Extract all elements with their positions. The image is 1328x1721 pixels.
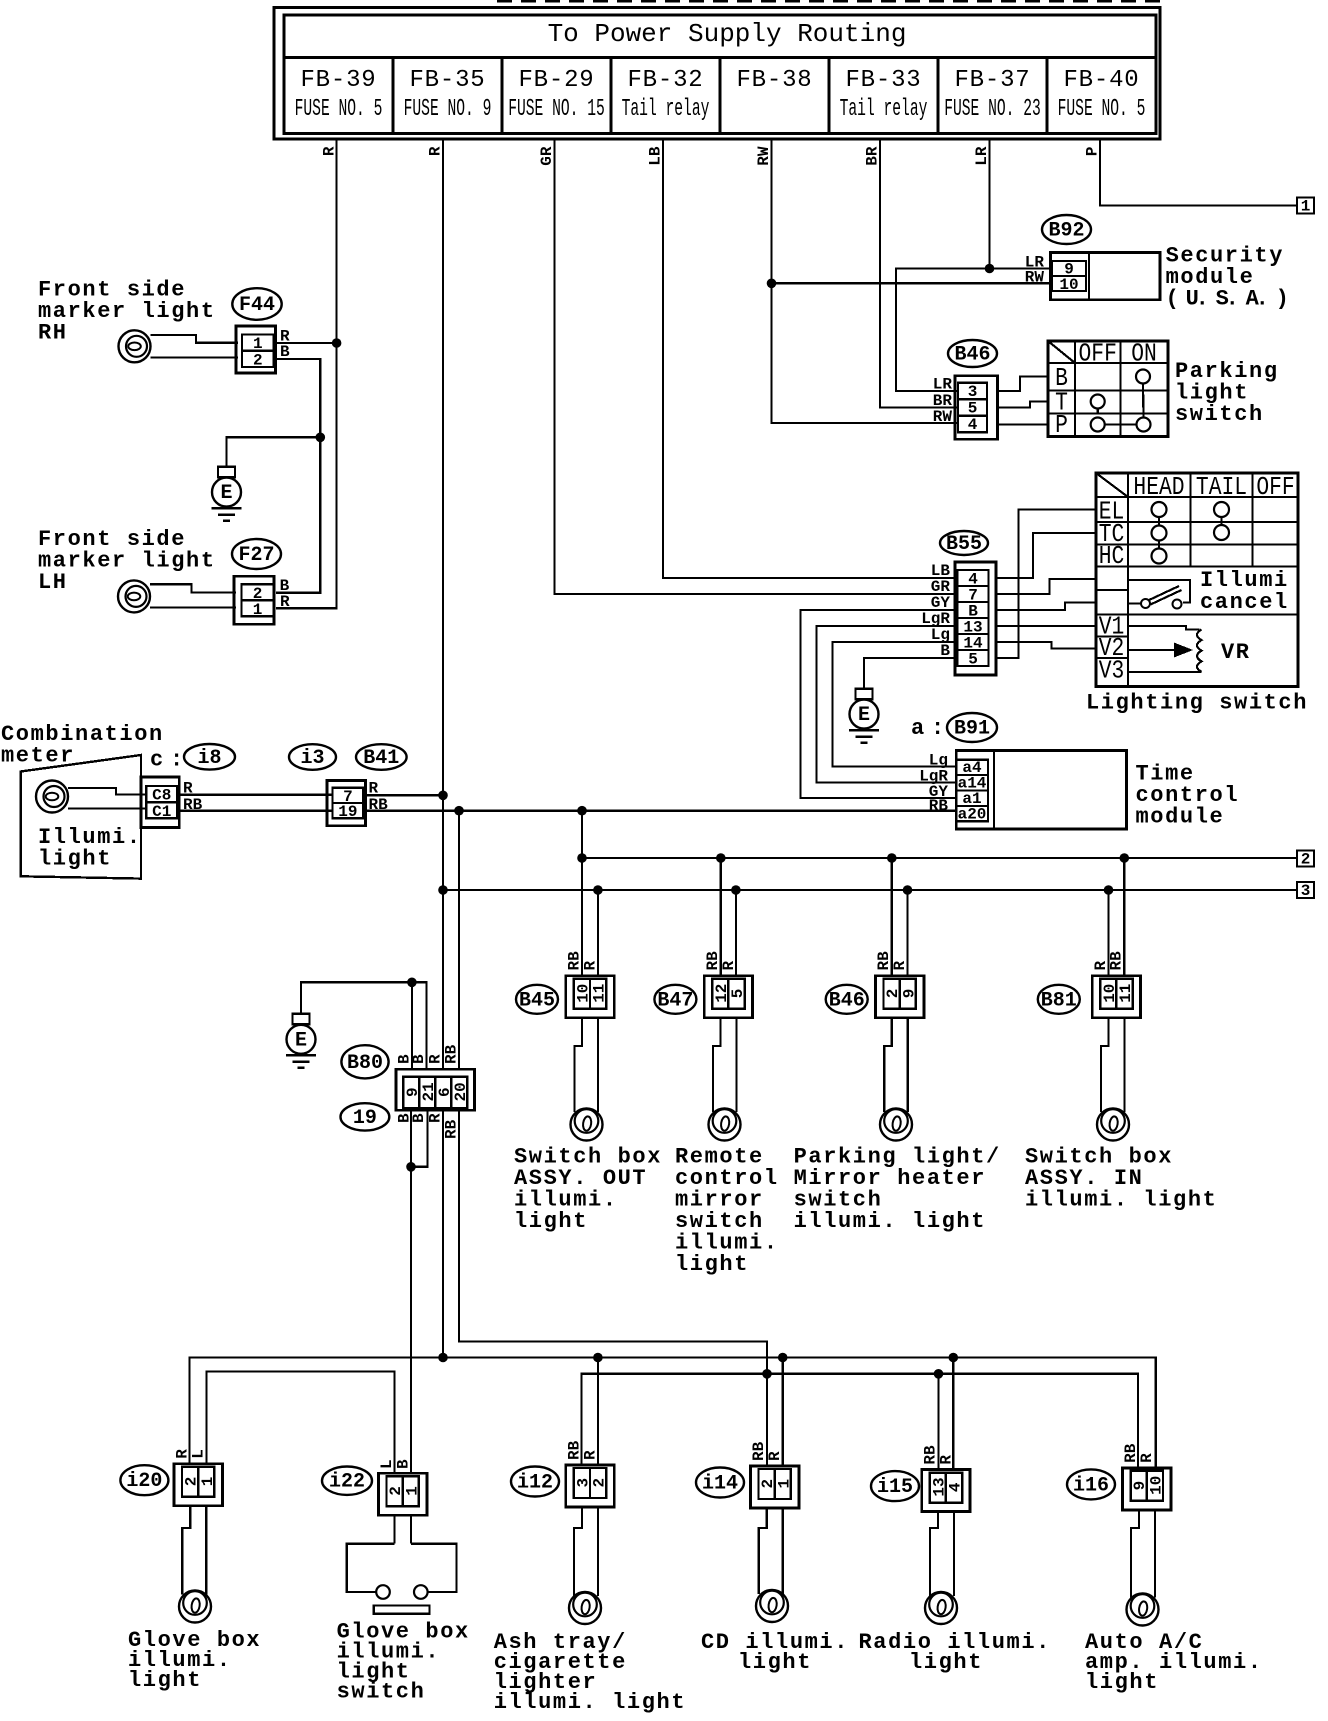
svg-text:GR: GR [538, 146, 556, 166]
svg-text:B92: B92 [1048, 220, 1084, 243]
connector i12 pins 3 2 [566, 1465, 614, 1507]
bulb i12 [569, 1592, 601, 1624]
junction bus R at net R [438, 885, 448, 895]
svg-text:B55: B55 [946, 533, 982, 556]
wire bus R to i15 pin 4 [952, 1358, 954, 1470]
svg-text:TAIL: TAIL [1196, 473, 1247, 503]
connector B45 pins 10 11 [566, 976, 614, 1018]
wire R connector c to B41 [179, 794, 332, 796]
svg-text:illumi. light: illumi. light [794, 1209, 986, 1234]
svg-text:LR: LR [973, 146, 991, 166]
junction RB at rail [762, 1369, 772, 1379]
svg-text:5: 5 [968, 651, 978, 669]
svg-text:FB-38: FB-38 [736, 67, 812, 94]
svg-text:i3: i3 [300, 747, 324, 770]
svg-text:F44: F44 [239, 294, 275, 317]
junction RB [454, 806, 464, 816]
svg-text:To Power Supply Routing: To Power Supply Routing [548, 19, 907, 49]
wire B45 pin 10 to bulb [575, 1018, 583, 1112]
contact TAIL-TC [1214, 525, 1229, 540]
svg-text:B81: B81 [1041, 989, 1077, 1012]
wire RB B41 to time control a20 [365, 810, 957, 812]
connector B41 pins 7 19 [327, 781, 365, 826]
switch link B-ON to P-ON [1142, 384, 1145, 418]
connector F44 designator [232, 288, 281, 320]
svg-text:B91: B91 [954, 718, 990, 741]
svg-text:R: R [937, 1455, 955, 1465]
svg-text:a20: a20 [958, 806, 987, 824]
wire ground E3 to B80 pins 9 21 [301, 982, 427, 1069]
svg-text:B47: B47 [657, 989, 693, 1012]
svg-text:20: 20 [452, 1082, 470, 1101]
svg-text:10: 10 [1147, 1476, 1165, 1495]
svg-text:FB-32: FB-32 [627, 67, 703, 94]
svg-text:2: 2 [591, 1478, 609, 1488]
svg-text:FUSE NO. 9: FUSE NO. 9 [404, 94, 492, 122]
glove box light switch [347, 1544, 395, 1592]
wire i22 pin 1 to switch [410, 1515, 412, 1544]
bulb i15 [925, 1592, 957, 1624]
contact HEAD-TC [1152, 526, 1167, 541]
contact TAIL-EL [1214, 502, 1229, 517]
connector i15 pins 13 4 [922, 1470, 970, 1512]
connector B46 designator [826, 985, 868, 1014]
connector B45 designator [516, 985, 558, 1014]
svg-text:E: E [858, 704, 870, 727]
wire rail RB to i15 pin 13 [937, 1374, 939, 1470]
connector B41 designator [356, 744, 407, 770]
wire B55 pin 4 to lighting switch TC row [996, 533, 1096, 578]
wire RB connector c to B41 [179, 810, 332, 812]
svg-text:3: 3 [1301, 882, 1311, 900]
contact HEAD-EL [1152, 502, 1167, 517]
svg-text:ON: ON [1131, 340, 1157, 370]
svg-text:P: P [1084, 147, 1102, 157]
svg-text:R: R [720, 961, 738, 971]
svg-text:B45: B45 [519, 989, 555, 1012]
connector B91 pins a4 a14 a1 a20 [956, 760, 988, 822]
wire net GR from FB-29 to B55 pin 7 [555, 139, 958, 594]
wire rail RB i12 to i16 [582, 1374, 1139, 1468]
svg-text:Tail relay: Tail relay [840, 94, 928, 122]
svg-text:FUSE NO. 5: FUSE NO. 5 [295, 94, 383, 122]
security module box [1050, 252, 1160, 299]
svg-text:R: R [581, 1450, 599, 1460]
svg-text:switch: switch [337, 1679, 426, 1704]
wire bus R to B47 pin 5 [735, 890, 737, 976]
wire cropped top edge artifact [497, 0, 1160, 2]
connector B92 pins 9 10 [1052, 261, 1086, 291]
svg-text:R: R [766, 1451, 784, 1461]
wire bulb RH to F44 pin 2 [151, 356, 239, 358]
connector B46 pins 2 9 [876, 976, 924, 1018]
ground E2 [856, 689, 873, 700]
svg-text:B: B [410, 1054, 428, 1064]
switch contact P-ON [1137, 418, 1151, 432]
wire bus R to i14 pin 1 [782, 1358, 784, 1467]
svg-text:RB: RB [443, 1119, 461, 1139]
wire B55 pin 7 to illumi cancel top [996, 579, 1096, 594]
wire LR to B92 pin 9 [990, 267, 1053, 269]
svg-text:VR: VR [1221, 640, 1251, 665]
svg-text:HC: HC [1099, 542, 1125, 572]
connector B81 pins 10 11 [1092, 976, 1140, 1018]
connector B55 designator [940, 531, 988, 555]
wire i15 pin 4 to bulb [953, 1512, 955, 1596]
svg-text:RB: RB [443, 1044, 461, 1064]
wire bus R to B46 pin 9 [906, 890, 908, 976]
wire LgR B55 pin 13 to time control a14 [817, 626, 958, 783]
svg-text:light: light [128, 1668, 202, 1693]
combination meter body [21, 755, 141, 879]
off-page connector 1 [1297, 198, 1314, 214]
wire net RW from FB-38 to parking switch pin 4 [772, 139, 958, 423]
svg-text:i14: i14 [702, 1473, 738, 1496]
svg-text:i12: i12 [517, 1472, 553, 1495]
connector i14 pins 2 1 [751, 1466, 799, 1508]
svg-text:5: 5 [729, 989, 747, 999]
wire B45 pin 11 to bulb [597, 1018, 599, 1112]
wire i14 pin 2 to bulb [759, 1508, 767, 1594]
svg-text:2: 2 [253, 351, 263, 369]
time control module box [956, 751, 1126, 829]
bulb B45 illumination [571, 1109, 603, 1141]
wire LR branch to parking light switch pin 3 [896, 269, 990, 392]
bulb B47 illumination [709, 1109, 741, 1141]
wire B55 pin 5 to lighting switch EL row [996, 510, 1096, 659]
svg-text:light: light [675, 1252, 749, 1277]
connector i16 pins 9 10 [1123, 1468, 1171, 1510]
svg-text:R: R [427, 146, 445, 156]
bulb front marker LH [118, 580, 150, 612]
connector i9 designator [341, 1103, 390, 1130]
wire bulb LH to F27 pin 1 [150, 606, 236, 608]
wire i20 pin 1 to bulb [205, 1506, 207, 1595]
svg-text:LH: LH [38, 570, 68, 595]
resistor VR [1197, 630, 1202, 672]
svg-text:( U. S. A. ): ( U. S. A. ) [1166, 286, 1286, 311]
wire B46 pin 4 to switch row P [997, 423, 1048, 425]
switch link P-OFF to P-ON [1105, 423, 1137, 425]
wire R B41 to net R [365, 794, 443, 796]
junction LR [985, 264, 995, 274]
connector i20 designator [120, 1465, 168, 1495]
svg-text:R: R [280, 593, 290, 611]
svg-text:i20: i20 [126, 1470, 162, 1493]
wire B55 pin 14 to V2 [996, 642, 1096, 649]
switch contact P-OFF [1091, 418, 1105, 432]
svg-text:BR: BR [864, 146, 882, 166]
wire i16 pin 10 to bulb [1154, 1510, 1156, 1598]
wire net LR from FB-37 [988, 139, 990, 269]
junction net R / F44 [332, 338, 342, 348]
wire net LB from FB-32 to B55 pin 4 [663, 139, 957, 578]
wire B55 pin B to illumi cancel bottom [996, 603, 1096, 611]
svg-text:L: L [190, 1449, 208, 1459]
lighting switch grid [1096, 473, 1298, 687]
svg-text:3: 3 [968, 383, 978, 401]
svg-text:10: 10 [1059, 276, 1078, 294]
svg-text:FB-29: FB-29 [518, 67, 594, 94]
wire i22 pin 2 to switch [393, 1515, 395, 1544]
svg-text:1: 1 [1301, 198, 1311, 216]
connector B91 designator [947, 713, 997, 742]
connector c pins C8 C1 [141, 777, 179, 828]
wire i14 pin 1 to bulb [782, 1508, 784, 1594]
svg-text:RB: RB [929, 797, 949, 815]
connector i20 pins 2 1 [174, 1464, 222, 1506]
svg-text:HEAD: HEAD [1133, 473, 1184, 503]
svg-text:light: light [514, 1209, 588, 1234]
svg-text:L: L [378, 1459, 396, 1469]
wire RB junction down to B45 pin 10 [581, 811, 583, 976]
connector B80 designator [341, 1045, 388, 1078]
svg-text:B: B [394, 1459, 412, 1469]
svg-text:B: B [410, 1113, 428, 1123]
connector F44 pins 1 2 [236, 326, 276, 373]
off-page connector 2 [1297, 851, 1314, 867]
power supply routing box [274, 8, 1160, 140]
illumi cancel switch [1128, 602, 1141, 604]
svg-text:cancel: cancel [1200, 590, 1289, 615]
svg-text:R: R [581, 961, 599, 971]
wire B46 pin 2 to bulb [884, 1018, 892, 1112]
connector B55 pins 4 7 B 13 14 5 [955, 562, 996, 675]
wire meter bulb to connector C1 [68, 807, 146, 809]
junction ground net [407, 978, 417, 988]
wire B46 pin 5 to switch row T [997, 402, 1048, 408]
connector B80 pins 9 21 6 20 [396, 1069, 475, 1110]
svg-text:module: module [1136, 805, 1225, 830]
svg-text:C1: C1 [152, 803, 171, 821]
svg-text:FB-39: FB-39 [300, 67, 376, 94]
wire F44 pin 2 down to F27 pin 2 (B) [276, 359, 321, 593]
connector i22 pins 2 1 [379, 1473, 427, 1515]
svg-text:RW: RW [1025, 269, 1045, 287]
svg-text:11: 11 [591, 984, 609, 1003]
connector B47 pins 12 5 [704, 976, 752, 1018]
wire B47 pin 5 to bulb [735, 1018, 737, 1112]
wire B80 pin 9 stub [411, 982, 413, 1069]
svg-text:1: 1 [199, 1477, 217, 1487]
ground E1 [218, 467, 235, 478]
wire bulb RH to F44 pin 1 [151, 335, 239, 343]
wire i20 pin 2 to bulb [182, 1506, 190, 1595]
wire bulb LH to F27 pin 2 [150, 584, 236, 592]
svg-text:F27: F27 [238, 544, 274, 567]
svg-text:light: light [1085, 1670, 1159, 1695]
svg-text:1: 1 [253, 335, 263, 353]
wire V3 to resistor VR [1128, 671, 1202, 673]
wire Lg B55 pin 14 to time control a4 [833, 642, 958, 767]
wire rail L i20 pin 1 to i22 pin 2 [207, 1372, 395, 1474]
connector B47 designator [654, 985, 696, 1014]
svg-text:OFF: OFF [1079, 340, 1117, 370]
svg-text:B46: B46 [954, 344, 990, 367]
bulb combination meter illumi light [36, 781, 68, 813]
svg-text:i22: i22 [329, 1471, 365, 1494]
svg-text:i8: i8 [197, 747, 221, 770]
contact stems [1158, 517, 1160, 526]
svg-text:illumi. light: illumi. light [1025, 1187, 1217, 1212]
wire bus R to B45 pin 11 [597, 890, 599, 976]
svg-text:5: 5 [968, 400, 978, 418]
wire B81 pin 11 to bulb [1123, 1018, 1125, 1112]
wire B80 pins 9 21 merge to net B [411, 1110, 428, 1167]
wire i16 pin 9 to bulb [1131, 1510, 1139, 1598]
wire RW branch to B92 pin 10 [772, 282, 1053, 284]
wire bus RB to B47 pin 12 [720, 858, 722, 976]
svg-text:FUSE NO. 23: FUSE NO. 23 [944, 94, 1041, 122]
svg-text:a :: a : [911, 716, 941, 741]
wire bus R lower i20 to i16 [190, 1358, 1156, 1468]
svg-text:R: R [891, 961, 909, 971]
junction net B [406, 1162, 416, 1172]
contact HEAD-HC [1152, 549, 1167, 564]
connector i16 designator [1067, 1469, 1115, 1499]
svg-text:FB-35: FB-35 [409, 67, 485, 94]
svg-text:1: 1 [775, 1479, 793, 1489]
svg-text:R: R [1138, 1453, 1156, 1463]
svg-text:B41: B41 [363, 747, 399, 770]
bulb i16 [1127, 1594, 1159, 1626]
connector i14 designator [696, 1468, 744, 1498]
svg-text:light: light [738, 1650, 812, 1675]
switch contact B-ON [1136, 370, 1150, 384]
wire V1 to resistor VR [1128, 626, 1200, 630]
svg-text:light: light [38, 846, 112, 871]
bulb B81 illumination [1097, 1109, 1129, 1141]
svg-text:LR: LR [933, 376, 953, 394]
junction RW [767, 279, 777, 289]
svg-text:4: 4 [968, 416, 978, 434]
svg-text:illumi. light: illumi. light [494, 1690, 686, 1715]
bulb front marker RH [119, 330, 151, 362]
connector i22 designator [322, 1467, 372, 1495]
svg-text:Tail relay: Tail relay [622, 94, 710, 122]
wire B46 pin 9 to bulb [907, 1018, 909, 1112]
connector B92 designator [1042, 215, 1091, 244]
svg-text:E: E [220, 482, 232, 505]
svg-text:1: 1 [253, 601, 263, 619]
svg-text:OFF: OFF [1256, 473, 1294, 503]
svg-text:i15: i15 [877, 1476, 913, 1499]
wire B81 pin 10 to bulb [1101, 1018, 1109, 1112]
svg-text:B80: B80 [347, 1052, 383, 1075]
svg-text:Lighting switch: Lighting switch [1086, 691, 1308, 716]
svg-text:11: 11 [1117, 984, 1135, 1003]
svg-text:FB-33: FB-33 [845, 67, 921, 94]
junction R at net R [438, 791, 448, 801]
connector i8 designator [184, 744, 235, 770]
connector i12 designator [511, 1467, 559, 1497]
wire bus R to B81 pin 10 [1107, 890, 1109, 976]
svg-text:FUSE NO. 5: FUSE NO. 5 [1058, 94, 1146, 122]
wire bus R to off-page 3 [443, 889, 1297, 891]
wire bus RB to B46 pin 2 [891, 858, 893, 976]
wire net B down to i22 pin 1 [410, 1167, 412, 1473]
svg-text:LB: LB [647, 146, 665, 166]
junction R bus at net R [438, 1353, 448, 1363]
svg-text:19: 19 [338, 803, 357, 821]
svg-text:9: 9 [900, 989, 918, 999]
connector B46 pins 3 5 4 [955, 376, 997, 439]
wire net P from FB-40 to off-page 1 [1100, 139, 1297, 206]
wire net R below B80 [442, 1110, 444, 1357]
wire B B55 pin 5 to ground E2 [864, 658, 955, 689]
junction rail RB at i15 [934, 1369, 944, 1379]
wire i15 pin 13 to bulb [930, 1512, 938, 1596]
wire net R from FB-39 down to F27 pin 1 [276, 139, 337, 608]
switch contact T-OFF [1091, 395, 1105, 409]
svg-text:E: E [295, 1029, 307, 1052]
svg-text:FUSE NO. 15: FUSE NO. 15 [508, 94, 605, 122]
svg-text:RW: RW [933, 408, 953, 426]
wire F44 pin 1 to net R [276, 342, 337, 344]
parking light switch grid [1048, 341, 1168, 437]
wire B47 pin 12 to bulb [713, 1018, 721, 1112]
svg-text:2: 2 [1301, 851, 1311, 869]
off-page connector 3 [1297, 882, 1314, 898]
wire net RB below B80 [459, 1110, 767, 1466]
wiper arrow V2 [1128, 649, 1176, 651]
wire bus R to i12 pin 2 [597, 1358, 599, 1466]
bulb i20 [179, 1591, 211, 1623]
wire bus RB to off-page 2 [582, 857, 1297, 859]
connector B81 designator [1038, 985, 1080, 1014]
connector i15 designator [871, 1471, 919, 1501]
svg-text:i16: i16 [1073, 1474, 1109, 1497]
svg-text:RW: RW [755, 146, 773, 166]
connector F27 pins 2 1 [234, 576, 274, 624]
bulb i14 [756, 1590, 788, 1622]
svg-text:B: B [280, 343, 290, 361]
svg-text:RB: RB [1108, 951, 1126, 971]
wire i12 pin 3 to bulb [574, 1507, 582, 1596]
connector B46 designator [948, 340, 997, 367]
wire B46 pin 3 to switch row B [997, 377, 1048, 392]
wire branch to ground E1 [227, 437, 321, 466]
junction B net / ground branch [316, 433, 326, 443]
svg-text:light: light [909, 1650, 983, 1675]
wire net R vertical FB-35 to B80 pin 6 [442, 139, 444, 1069]
wire GY B55 pin B to time control a1 [801, 610, 958, 798]
svg-text:FB-40: FB-40 [1063, 67, 1139, 94]
wire net RB vertical to B80 pin 20 [458, 811, 460, 1070]
svg-text:V3: V3 [1099, 657, 1125, 687]
svg-text:RH: RH [38, 320, 68, 345]
svg-text:1: 1 [403, 1486, 421, 1496]
svg-text:FB-37: FB-37 [954, 67, 1030, 94]
svg-text:4: 4 [947, 1482, 965, 1492]
bulb B46 illumination [880, 1109, 912, 1141]
wire net BR from FB-33 to parking switch pin 5 [880, 139, 957, 408]
wire i12 pin 2 to bulb [597, 1507, 599, 1596]
ground E3 [293, 1014, 310, 1025]
svg-text:B46: B46 [829, 989, 865, 1012]
svg-text:19: 19 [353, 1107, 377, 1130]
connector F27 designator [232, 539, 281, 569]
svg-text:switch: switch [1175, 402, 1264, 427]
wire B55 pin 13 to V1 [996, 625, 1096, 627]
wire meter bulb to connector C8 [68, 788, 146, 795]
svg-text:P: P [1055, 411, 1068, 441]
wire bus RB to B81 pin 11 [1123, 858, 1125, 976]
svg-text:c :: c : [150, 748, 180, 773]
connector i3 designator [289, 744, 336, 770]
